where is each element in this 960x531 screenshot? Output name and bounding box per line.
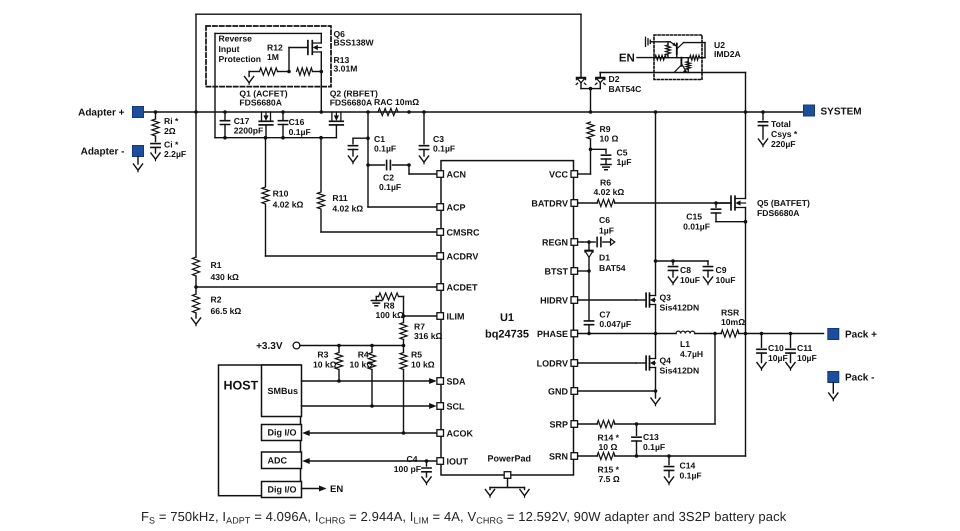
svg-text:100 pF: 100 pF xyxy=(394,464,421,474)
svg-text:10 kΩ: 10 kΩ xyxy=(313,360,337,370)
svg-text:C8: C8 xyxy=(680,265,691,275)
svg-text:0.1µF: 0.1µF xyxy=(289,127,311,137)
svg-text:10 kΩ: 10 kΩ xyxy=(350,360,374,370)
svg-text:SCL: SCL xyxy=(447,401,466,411)
svg-text:C4: C4 xyxy=(407,454,418,464)
svg-text:C11: C11 xyxy=(797,343,813,353)
svg-text:SMBus: SMBus xyxy=(268,386,299,396)
svg-text:10 kΩ: 10 kΩ xyxy=(411,360,435,370)
svg-text:Q5 (BATFET): Q5 (BATFET) xyxy=(757,198,810,208)
svg-text:SRP: SRP xyxy=(549,419,568,429)
svg-text:Sis412DN: Sis412DN xyxy=(660,303,700,313)
svg-text:PowerPad: PowerPad xyxy=(488,454,532,464)
svg-text:C10: C10 xyxy=(768,343,784,353)
svg-text:0.1µF: 0.1µF xyxy=(643,442,665,452)
svg-text:BATDRV: BATDRV xyxy=(531,198,568,208)
svg-text:C6: C6 xyxy=(599,215,610,225)
svg-text:4.02 kΩ: 4.02 kΩ xyxy=(273,200,304,210)
svg-text:R1: R1 xyxy=(211,260,222,270)
svg-text:2.2µF: 2.2µF xyxy=(164,149,186,159)
svg-text:L1: L1 xyxy=(680,339,690,349)
svg-text:EN: EN xyxy=(330,484,343,495)
svg-text:R14 *: R14 * xyxy=(598,433,620,443)
svg-text:10uF: 10uF xyxy=(680,275,700,285)
svg-text:D1: D1 xyxy=(599,253,610,263)
svg-text:Ci *: Ci * xyxy=(164,140,179,150)
svg-text:100 kΩ: 100 kΩ xyxy=(376,310,405,320)
svg-text:SRN: SRN xyxy=(549,451,568,461)
svg-text:Adapter -: Adapter - xyxy=(81,147,125,158)
svg-text:10 Ω: 10 Ω xyxy=(599,442,618,452)
svg-text:BTST: BTST xyxy=(545,266,569,276)
svg-text:Dig I/O: Dig I/O xyxy=(268,485,297,495)
svg-text:VCC: VCC xyxy=(549,169,569,179)
svg-text:ADC: ADC xyxy=(268,455,288,465)
svg-text:Dig I/O: Dig I/O xyxy=(268,428,297,438)
svg-text:0.1µF: 0.1µF xyxy=(374,144,396,154)
svg-text:4.02 kΩ: 4.02 kΩ xyxy=(332,204,363,214)
svg-text:HOST: HOST xyxy=(224,379,259,393)
svg-text:IOUT: IOUT xyxy=(447,456,469,466)
svg-text:REGN: REGN xyxy=(542,237,568,247)
svg-text:GND: GND xyxy=(548,386,569,396)
svg-text:CMSRC: CMSRC xyxy=(447,227,480,237)
svg-text:R7: R7 xyxy=(414,322,425,332)
svg-text:10uF: 10uF xyxy=(716,275,736,285)
svg-text:Pack -: Pack - xyxy=(845,373,874,384)
svg-text:C13: C13 xyxy=(643,432,659,442)
svg-text:R9: R9 xyxy=(600,124,611,134)
svg-text:R8: R8 xyxy=(384,301,395,311)
svg-text:ILIM: ILIM xyxy=(447,311,465,321)
svg-text:SYSTEM: SYSTEM xyxy=(821,107,862,118)
svg-text:1µF: 1µF xyxy=(617,157,632,167)
svg-text:Q3: Q3 xyxy=(660,293,672,303)
svg-text:4.02 kΩ: 4.02 kΩ xyxy=(594,187,625,197)
svg-text:7.5 Ω: 7.5 Ω xyxy=(599,474,620,484)
svg-text:Csys *: Csys * xyxy=(771,129,798,139)
svg-text:PHASE: PHASE xyxy=(537,329,568,339)
svg-text:R2: R2 xyxy=(211,295,222,305)
svg-text:Adapter +: Adapter + xyxy=(78,108,125,119)
svg-text:D2: D2 xyxy=(609,74,620,84)
svg-text:10mΩ: 10mΩ xyxy=(721,317,745,327)
svg-text:Reverse: Reverse xyxy=(219,33,253,43)
svg-text:2Ω: 2Ω xyxy=(164,126,176,136)
svg-text:bq24735: bq24735 xyxy=(485,329,529,341)
svg-text:SDA: SDA xyxy=(447,376,467,386)
svg-text:Sis412DN: Sis412DN xyxy=(660,366,700,376)
svg-text:FDS6680A: FDS6680A xyxy=(330,97,373,107)
svg-text:R3: R3 xyxy=(317,350,328,360)
svg-text:RAC 10mΩ: RAC 10mΩ xyxy=(374,97,419,107)
svg-text:ACDRV: ACDRV xyxy=(447,251,479,261)
svg-text:Input: Input xyxy=(219,44,240,54)
svg-text:C5: C5 xyxy=(617,148,628,158)
svg-text:BSS138W: BSS138W xyxy=(334,38,375,48)
svg-text:10µF: 10µF xyxy=(797,353,817,363)
svg-text:1µF: 1µF xyxy=(599,226,614,236)
svg-text:C7: C7 xyxy=(599,310,610,320)
svg-text:R10: R10 xyxy=(273,188,289,198)
svg-text:R5: R5 xyxy=(411,350,422,360)
svg-text:R11: R11 xyxy=(332,193,348,203)
svg-text:R12: R12 xyxy=(267,42,283,52)
svg-text:ACDET: ACDET xyxy=(447,282,479,292)
svg-text:4.7µH: 4.7µH xyxy=(680,349,703,359)
svg-text:R4: R4 xyxy=(358,350,369,360)
svg-text:C17: C17 xyxy=(234,116,250,126)
svg-text:C15: C15 xyxy=(686,212,702,222)
svg-text:C3: C3 xyxy=(433,134,444,144)
svg-text:EN: EN xyxy=(619,53,635,65)
svg-text:Pack +: Pack + xyxy=(845,330,877,341)
svg-text:C1: C1 xyxy=(374,134,385,144)
svg-text:66.5 kΩ: 66.5 kΩ xyxy=(211,306,242,316)
svg-text:0.01µF: 0.01µF xyxy=(683,222,710,232)
svg-text:220µF: 220µF xyxy=(771,139,796,149)
svg-text:ACN: ACN xyxy=(447,169,467,179)
svg-text:0.047µF: 0.047µF xyxy=(599,319,631,329)
svg-text:ACOK: ACOK xyxy=(447,428,474,438)
svg-text:2200pF: 2200pF xyxy=(234,126,264,136)
svg-text:+3.3V: +3.3V xyxy=(256,341,283,352)
svg-text:3.01M: 3.01M xyxy=(334,64,358,74)
svg-text:C9: C9 xyxy=(716,265,727,275)
svg-text:FDS6680A: FDS6680A xyxy=(757,208,800,218)
svg-text:IMD2A: IMD2A xyxy=(714,49,741,59)
svg-text:0.1µF: 0.1µF xyxy=(379,182,401,192)
svg-text:BAT54C: BAT54C xyxy=(609,84,642,94)
svg-text:HIDRV: HIDRV xyxy=(540,295,568,305)
svg-text:ACP: ACP xyxy=(447,202,466,212)
svg-text:Q4: Q4 xyxy=(660,356,672,366)
svg-text:Ri *: Ri * xyxy=(164,116,179,126)
svg-text:0.1µF: 0.1µF xyxy=(433,144,455,154)
svg-text:RSR: RSR xyxy=(721,308,740,318)
svg-text:FDS6680A: FDS6680A xyxy=(239,97,282,107)
svg-text:LODRV: LODRV xyxy=(537,358,568,368)
svg-text:316 kΩ: 316 kΩ xyxy=(414,331,443,341)
svg-text:10µF: 10µF xyxy=(768,353,788,363)
svg-text:BAT54: BAT54 xyxy=(599,263,626,273)
svg-text:430 kΩ: 430 kΩ xyxy=(211,272,240,282)
svg-text:Total: Total xyxy=(771,119,791,129)
svg-text:C14: C14 xyxy=(680,461,696,471)
svg-text:R6: R6 xyxy=(600,178,611,188)
svg-text:10 Ω: 10 Ω xyxy=(600,134,619,144)
svg-text:1M: 1M xyxy=(267,52,279,62)
svg-text:R15 *: R15 * xyxy=(598,465,620,475)
svg-text:C16: C16 xyxy=(289,117,305,127)
svg-text:0.1µF: 0.1µF xyxy=(680,471,702,481)
svg-text:Protection: Protection xyxy=(219,54,262,64)
svg-text:U1: U1 xyxy=(500,312,514,324)
